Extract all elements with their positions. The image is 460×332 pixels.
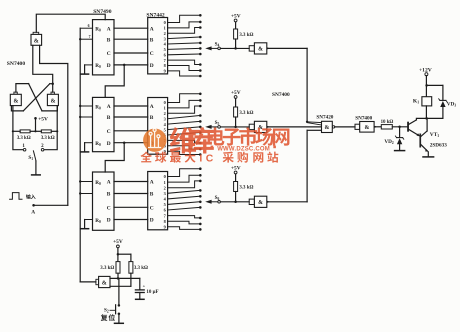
svg-text:D: D — [150, 63, 154, 69]
svg-text:+12V: +12V — [419, 67, 432, 73]
svg-text:C: C — [206, 154, 214, 165]
svg-text:5: 5 — [164, 47, 166, 52]
svg-text:A: A — [107, 180, 111, 186]
svg-text:9: 9 — [164, 69, 166, 74]
svg-text:2SD633: 2SD633 — [430, 142, 447, 148]
svg-text:8: 8 — [164, 219, 166, 224]
svg-text:B: B — [150, 192, 154, 198]
svg-text:3.3 kΩ: 3.3 kΩ — [134, 266, 148, 271]
svg-text:WWW.DZSC.COM: WWW.DZSC.COM — [217, 146, 270, 152]
svg-text:3.3 kΩ: 3.3 kΩ — [239, 33, 253, 38]
svg-text:&: & — [34, 39, 39, 45]
svg-text:6: 6 — [88, 24, 90, 28]
svg-text:B: B — [107, 37, 111, 43]
svg-text:&: & — [324, 125, 329, 131]
svg-text:I: I — [199, 154, 202, 165]
svg-text:SN7400: SN7400 — [7, 61, 26, 67]
svg-text:5: 5 — [164, 202, 166, 207]
svg-text:3.3 kΩ: 3.3 kΩ — [239, 111, 253, 116]
svg-text:&: & — [102, 281, 107, 287]
svg-text:A: A — [150, 26, 154, 32]
svg-text:SN7400: SN7400 — [272, 92, 290, 98]
svg-text:&: & — [13, 99, 18, 105]
svg-text:SN7420: SN7420 — [316, 115, 333, 121]
svg-text:A: A — [107, 104, 111, 110]
svg-text:2: 2 — [164, 111, 166, 116]
svg-text:7: 7 — [89, 35, 91, 39]
svg-text:5: 5 — [164, 127, 166, 132]
svg-text:+5V: +5V — [38, 117, 48, 123]
svg-text:D: D — [150, 218, 154, 224]
svg-text:3: 3 — [164, 116, 166, 121]
svg-text:3: 3 — [164, 191, 166, 196]
svg-text:C: C — [107, 129, 111, 135]
svg-text:3.3 kΩ: 3.3 kΩ — [17, 136, 31, 141]
svg-text:+5V: +5V — [231, 165, 241, 171]
svg-text:10 μF: 10 μF — [146, 290, 158, 295]
svg-text:C: C — [107, 206, 111, 212]
svg-text:C: C — [107, 51, 111, 57]
svg-text:SN7442: SN7442 — [146, 12, 165, 18]
svg-text:8: 8 — [164, 63, 166, 68]
svg-text:A: A — [150, 104, 154, 110]
svg-text:1: 1 — [164, 180, 166, 185]
svg-text:B: B — [150, 37, 154, 43]
svg-text:10 kΩ: 10 kΩ — [381, 120, 394, 125]
svg-text:3: 3 — [164, 36, 166, 41]
svg-text:C: C — [150, 51, 154, 57]
svg-text:A: A — [107, 26, 111, 32]
svg-text:9: 9 — [164, 225, 166, 230]
svg-text:3.3 kΩ: 3.3 kΩ — [239, 186, 253, 191]
svg-text:1: 1 — [164, 106, 166, 111]
svg-text:B: B — [150, 115, 154, 121]
svg-text:B: B — [107, 192, 111, 198]
svg-text:1: 1 — [164, 26, 166, 31]
svg-text:A: A — [31, 210, 35, 216]
svg-text:+5V: +5V — [231, 90, 241, 96]
svg-text:0: 0 — [164, 174, 166, 179]
svg-text:2: 2 — [164, 31, 166, 36]
svg-text:&: & — [51, 99, 56, 105]
svg-text:3.3 kΩ: 3.3 kΩ — [41, 136, 55, 141]
svg-text:0: 0 — [164, 100, 166, 105]
svg-text:+5V: +5V — [231, 13, 241, 19]
svg-text:D: D — [107, 218, 111, 224]
svg-text:D: D — [107, 63, 111, 69]
svg-text:2: 2 — [164, 185, 166, 190]
svg-text:D: D — [107, 141, 111, 147]
svg-text:&: & — [258, 47, 263, 53]
svg-text:B: B — [107, 115, 111, 121]
svg-text:+: + — [143, 284, 146, 289]
svg-text:&: & — [364, 125, 369, 131]
svg-text:SN7400: SN7400 — [355, 116, 372, 122]
svg-text:C: C — [150, 206, 154, 212]
svg-text:0: 0 — [164, 20, 166, 25]
svg-text:A: A — [150, 180, 154, 186]
svg-text:3.3 kΩ: 3.3 kΩ — [100, 266, 114, 271]
svg-text:&: & — [258, 200, 263, 206]
svg-text:+5V: +5V — [113, 239, 123, 245]
